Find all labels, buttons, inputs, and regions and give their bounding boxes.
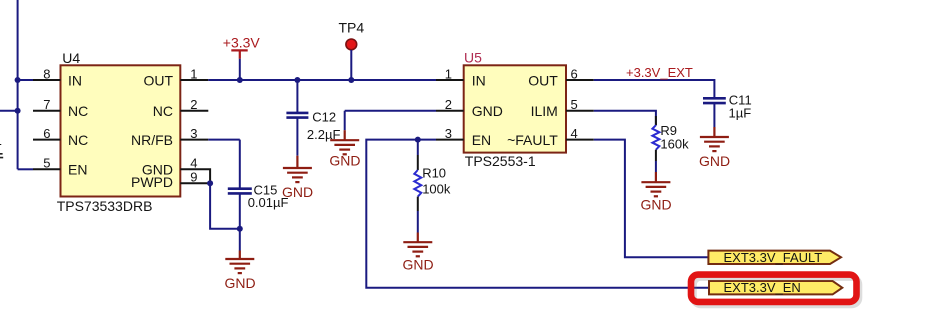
svg-text:8: 8 [43, 66, 50, 81]
svg-text:GND: GND [472, 103, 503, 119]
svg-text:GND: GND [329, 153, 360, 169]
wire U4 pin3 to C15 [208, 139, 240, 141]
wire U5 pin5 to R9 [594, 111, 656, 125]
wire bus to U4 pin5 EN [18, 168, 33, 170]
svg-text:GND: GND [641, 197, 672, 213]
svg-text:U4: U4 [62, 50, 80, 66]
pin 3 stub U5 [436, 139, 464, 141]
port flag EXT3.3V_EN [709, 280, 842, 295]
component U5 body TPS2553-1 [464, 65, 566, 152]
svg-text:7: 7 [43, 97, 50, 112]
capacitor C15 [228, 140, 252, 229]
annotation red highlight box [691, 275, 859, 305]
pin 2 stub U4 no-connect [180, 110, 208, 112]
svg-text:R10: R10 [422, 165, 446, 180]
wire TP4 stem [350, 50, 352, 80]
svg-text:100k: 100k [422, 182, 451, 197]
svg-text:4: 4 [571, 126, 578, 141]
svg-text:GND: GND [224, 275, 255, 291]
pin 1 stub U4 [180, 79, 208, 81]
ground GND symbol below C11 [700, 127, 729, 151]
svg-text:4: 4 [0, 134, 2, 150]
svg-text:OUT: OUT [143, 72, 173, 88]
svg-text:3: 3 [190, 126, 197, 141]
ground GND symbol below U5 pin2 [330, 130, 359, 154]
svg-text:+3.3V: +3.3V [223, 35, 261, 51]
node junction dot C12 tap [294, 77, 300, 83]
svg-text:TP4: TP4 [339, 20, 365, 36]
svg-text:TPS2553-1: TPS2553-1 [465, 153, 536, 169]
ground GND symbol below R10 [403, 233, 432, 257]
svg-text:OUT: OUT [528, 72, 558, 88]
capacitor C12 [286, 80, 308, 156]
pin 5 stub U4 [33, 168, 61, 170]
wire bus to U4 pin8 [18, 79, 33, 81]
component U4 body TPS73533DRB [61, 65, 181, 196]
power +3.3V symbol [231, 50, 247, 58]
svg-text:2: 2 [190, 97, 197, 112]
testpoint TP4 [346, 39, 357, 50]
svg-text:~FAULT: ~FAULT [507, 132, 558, 148]
port flag EXT3.3V_FAULT [708, 250, 841, 265]
ground GND symbol below R9 [641, 172, 670, 196]
wire ~FAULT net from U5 pin4 to flag [594, 140, 709, 258]
pin 6 stub U4 [33, 139, 61, 141]
svg-text:IN: IN [472, 72, 486, 88]
svg-text:9: 9 [190, 170, 197, 185]
off-sheet clipped marks [0, 154, 3, 158]
pin 6 stub U5 [566, 79, 594, 81]
svg-text:1: 1 [190, 66, 197, 81]
svg-text:ILIM: ILIM [531, 103, 558, 119]
pin 7 stub U4 [33, 110, 61, 112]
wire C15 node to ground [239, 229, 241, 251]
node junction dot TP4 tap [348, 77, 354, 83]
svg-text:2: 2 [445, 97, 452, 112]
pin 9 stub U4 [180, 182, 210, 184]
resistor R9 [655, 116, 657, 125]
svg-text:6: 6 [571, 66, 578, 81]
pin 3 stub U4 [180, 139, 208, 141]
pin 5 stub U5 [566, 110, 594, 112]
svg-text:5: 5 [571, 97, 578, 112]
svg-text:IN: IN [68, 72, 82, 88]
pin 1 stub U5 [436, 79, 464, 81]
pin 4 stub U5 [566, 139, 594, 141]
svg-text:TPS73533DRB: TPS73533DRB [57, 198, 153, 214]
svg-text:160k: 160k [660, 137, 689, 152]
svg-text:PWPD: PWPD [131, 174, 173, 190]
svg-text:EN: EN [68, 162, 87, 178]
node junction dot C15 bottom [237, 226, 243, 232]
svg-text:NC: NC [68, 103, 88, 119]
svg-text:EN: EN [472, 132, 491, 148]
wire branch to left edge at pin7 row [0, 110, 18, 112]
ground GND symbol below C15 node [225, 251, 254, 274]
svg-text:U5: U5 [464, 50, 482, 66]
svg-text:NC: NC [68, 132, 88, 148]
svg-text:4: 4 [190, 155, 197, 170]
node junction dot pin4 pin9 [207, 180, 213, 186]
pin 4 stub U4 [180, 169, 210, 183]
wire EN net from U5 pin3 down to EXT3.3V_EN flag [366, 140, 709, 288]
svg-text:1µF: 1µF [729, 106, 752, 121]
svg-text:NR/FB: NR/FB [131, 132, 173, 148]
ground GND symbol below C12 [283, 156, 312, 182]
capacitor C11 [703, 98, 726, 127]
wire +3.3V_EXT net from U5 pin6 [594, 80, 715, 98]
svg-text:0.01µF: 0.01µF [248, 195, 289, 210]
wire vertical bus left from top edge to EN row [17, 0, 19, 169]
svg-text:3: 3 [445, 126, 452, 141]
node junction dot pin7 branch [15, 108, 21, 114]
svg-text:C12: C12 [312, 110, 336, 125]
node junction dot pin8 [15, 77, 21, 83]
wire net OUT row from U4 pin1 to U5 pin1 [208, 79, 436, 81]
svg-text:GND: GND [402, 257, 433, 273]
svg-text:6: 6 [43, 126, 50, 141]
resistor R10 [417, 140, 419, 155]
node junction dot R10 tap [415, 137, 421, 143]
svg-text:1: 1 [445, 66, 452, 81]
node junction dot +3.3V tap [237, 77, 243, 83]
svg-text:5: 5 [43, 156, 50, 171]
pin 2 stub U5 [436, 110, 464, 112]
wire +3.3V stem [239, 59, 241, 80]
svg-text:GND: GND [699, 153, 730, 169]
svg-text:+3.3V_EXT: +3.3V_EXT [626, 65, 693, 80]
wire U5 pin2 GND net [345, 111, 436, 130]
pin 8 stub U4 [33, 79, 61, 81]
wire pin4 pin9 net down to C15 bottom node [210, 183, 240, 228]
svg-text:EXT3.3V_EN: EXT3.3V_EN [724, 280, 801, 295]
svg-text:NC: NC [153, 103, 173, 119]
svg-text:EXT3.3V_FAULT: EXT3.3V_FAULT [724, 250, 823, 265]
